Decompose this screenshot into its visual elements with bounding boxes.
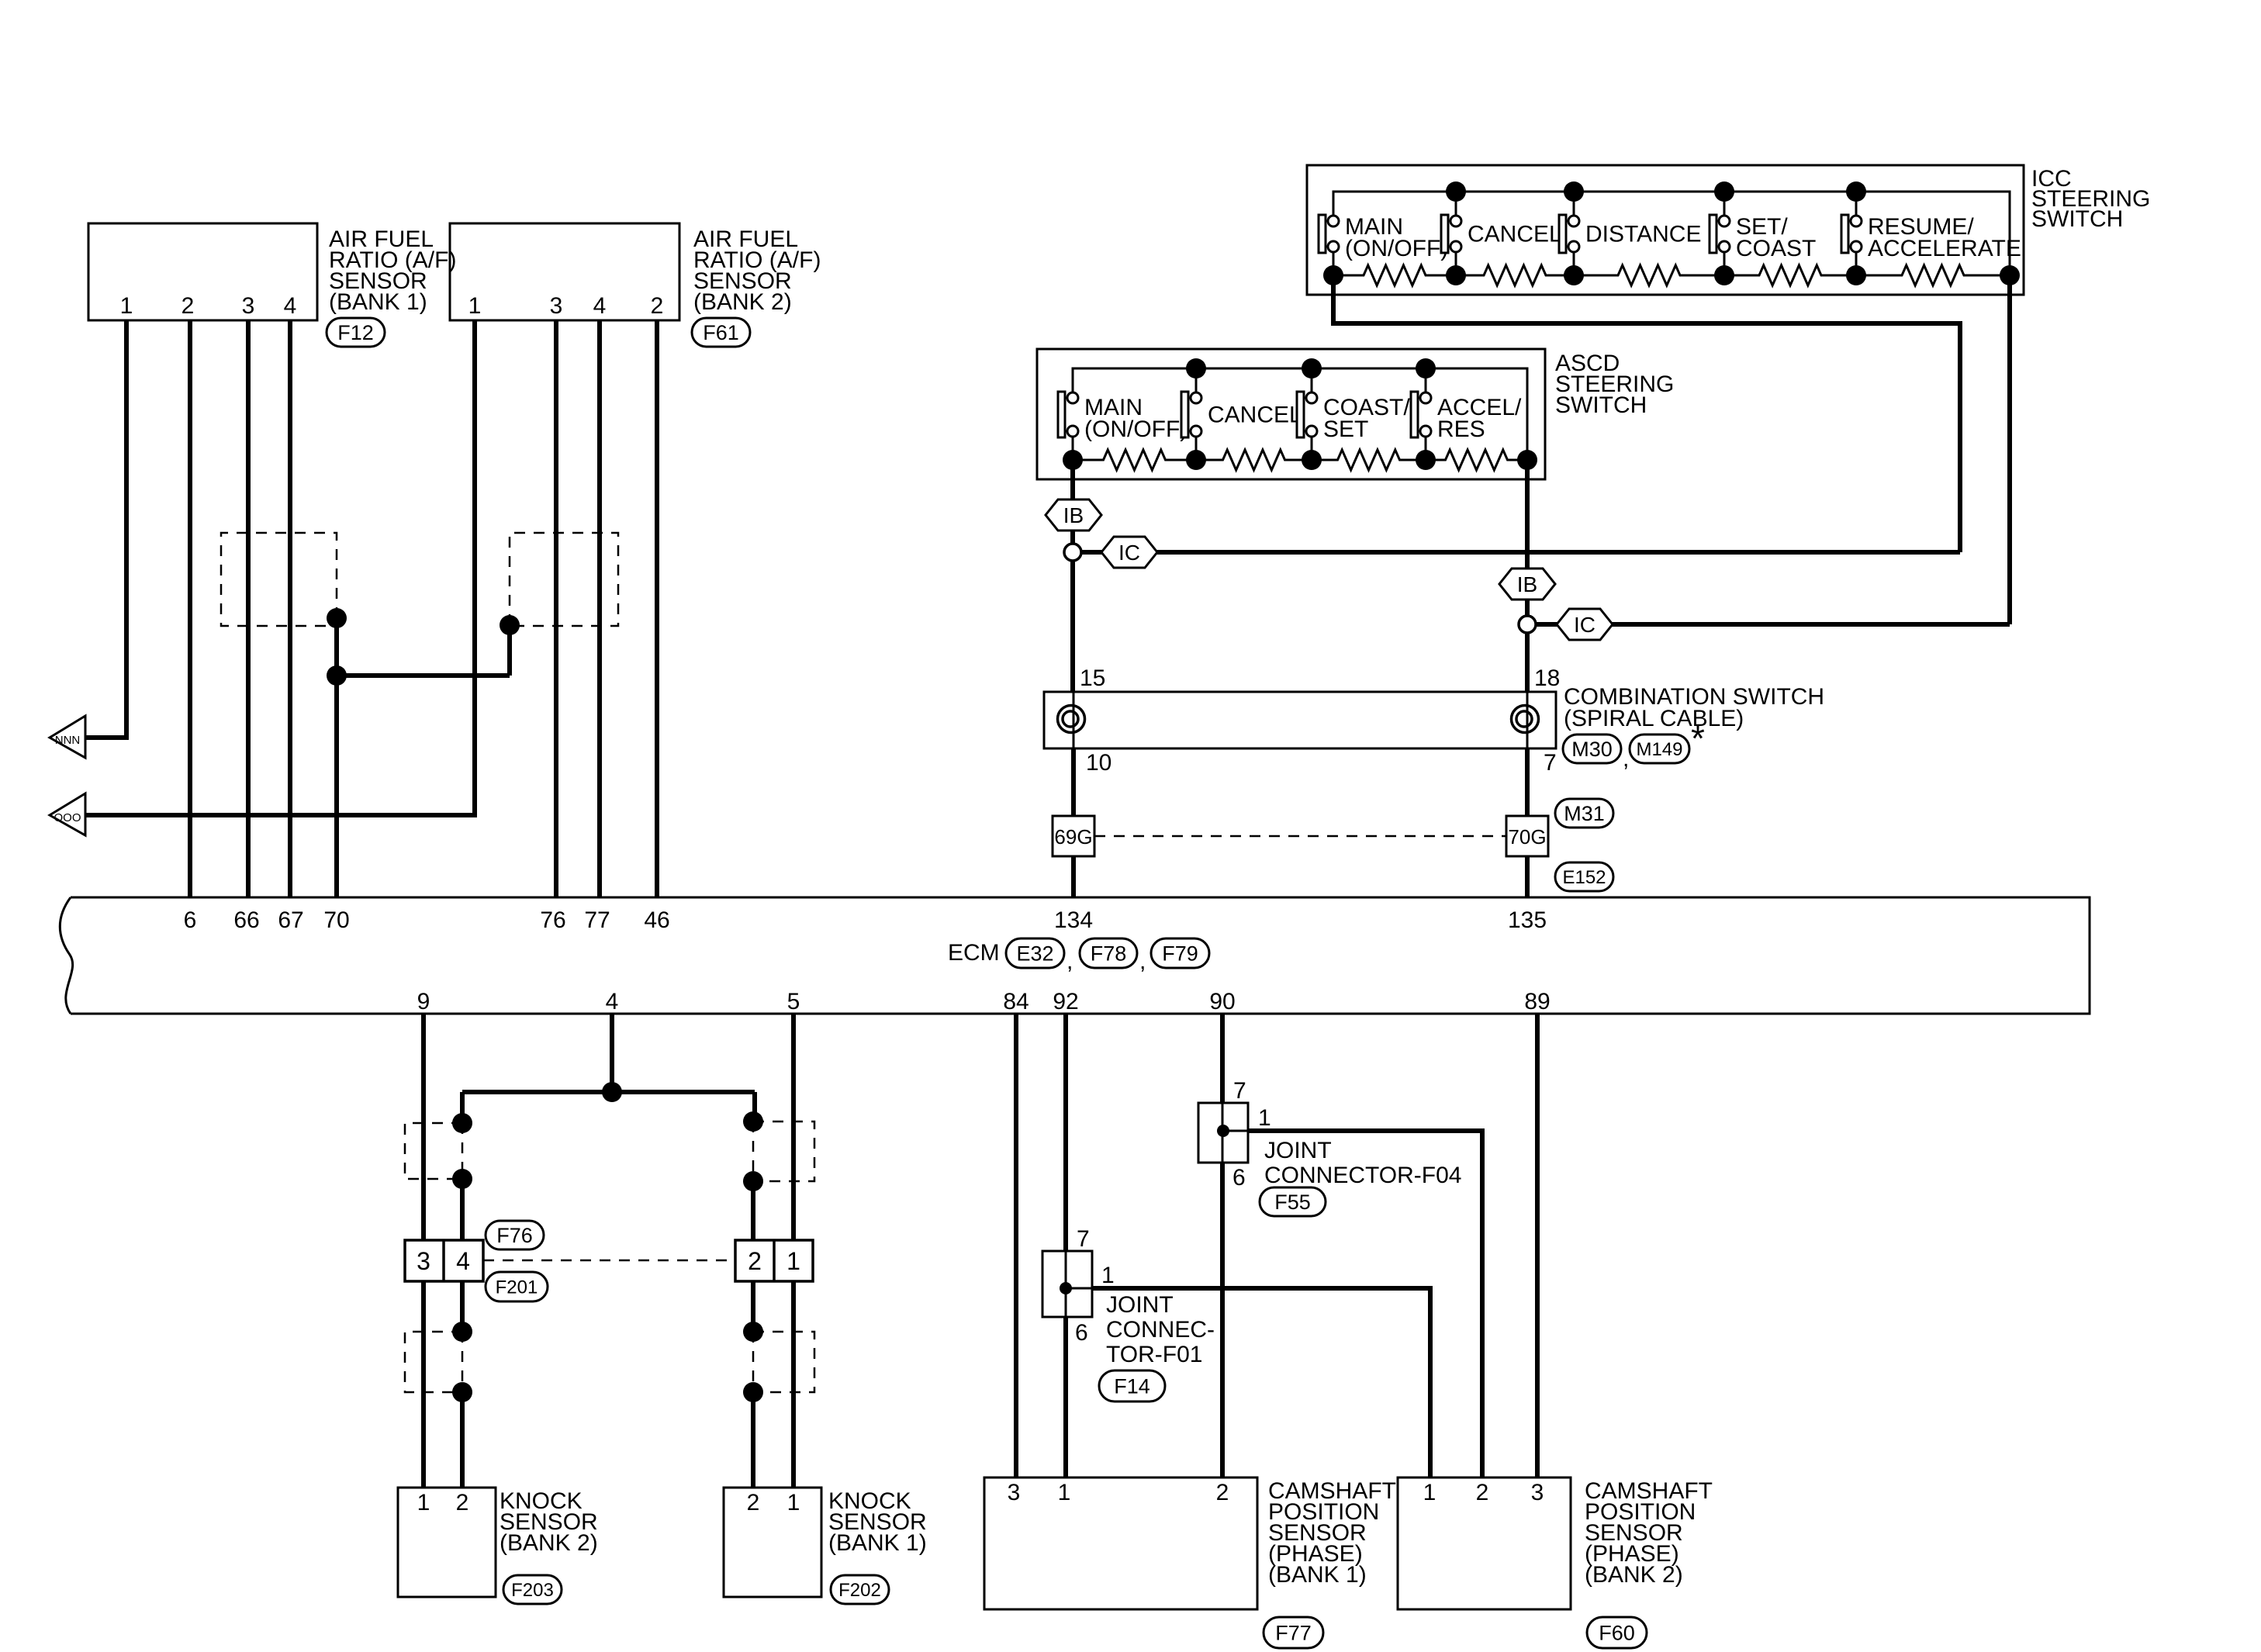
dashed link 69G-70G (1094, 835, 1506, 838)
svg-text:1: 1 (1058, 1480, 1071, 1505)
ASCD switch MAIN (ON/OFF) (1058, 368, 1188, 460)
connector F78 (1080, 938, 1137, 968)
wire through spiral cable right (1526, 692, 1529, 816)
svg-text:OOO: OOO (54, 811, 81, 824)
joint connector F04 junction (1217, 1125, 1229, 1137)
ASCD bottom bus resistors (1073, 450, 1527, 470)
svg-text:2: 2 (747, 1490, 760, 1515)
wire through spiral cable left (1073, 692, 1075, 816)
spiral symbol right (1512, 706, 1539, 733)
svg-text:F78: F78 (1091, 942, 1127, 966)
wire 69G to ECM 134 (1071, 856, 1076, 897)
svg-text:7: 7 (1077, 1226, 1090, 1252)
svg-text:E152: E152 (1562, 867, 1606, 888)
joint connector F04 box (1198, 1103, 1248, 1163)
svg-text:F12: F12 (337, 321, 374, 344)
svg-text:(SPIRAL CABLE): (SPIRAL CABLE) (1564, 706, 1744, 731)
wire ECM 5 to knock sensor bank1 pin1 (791, 1014, 796, 1488)
ASCD steering switch box (1037, 349, 1545, 479)
shield (knock bank2 upper) (405, 1123, 462, 1179)
pin 15 label (1080, 665, 1105, 691)
ICC switch SET/COAST (1710, 192, 1816, 275)
wire ASCD right to spiral cable 18 (1525, 460, 1530, 692)
ICC switch DISTANCE (1559, 192, 1701, 275)
connector cell pin labels (417, 1247, 800, 1275)
svg-text:(ON/OFF): (ON/OFF) (1084, 416, 1188, 442)
wire ECM 9 to knock sensor bank2 pin1 (421, 1014, 426, 1488)
svg-text:(BANK 2): (BANK 2) (500, 1530, 598, 1556)
ASCD top bus junctions (1186, 358, 1436, 378)
connector E32 (1006, 938, 1064, 968)
ECM bottom pin labels (417, 989, 1551, 1014)
svg-text:CONNECTOR-F04: CONNECTOR-F04 (1264, 1163, 1461, 1188)
wire F61 pin3 to ECM 76 (554, 320, 558, 897)
ASCD switch COAST/SET (1297, 368, 1410, 460)
page connector arrow OOO (50, 793, 85, 835)
shield (bank 1 sensor cable) (221, 533, 337, 626)
connector F201 (486, 1272, 548, 1301)
wire F61 pin2 to ECM 46 (655, 320, 659, 897)
svg-text:ECM: ECM (948, 940, 1000, 966)
svg-text:TOR-F01: TOR-F01 (1106, 1342, 1202, 1367)
knock connector F76/F201 left (405, 1240, 483, 1281)
svg-text:3: 3 (417, 1247, 430, 1275)
svg-text:76: 76 (540, 907, 565, 933)
svg-text:1: 1 (1258, 1105, 1271, 1131)
svg-text:70: 70 (323, 907, 349, 933)
connector F202 (831, 1575, 889, 1604)
svg-text:SWITCH: SWITCH (2031, 206, 2123, 232)
camshaft position sensor (bank 2) label (1585, 1478, 1713, 1588)
connector F77 (1264, 1617, 1323, 1648)
svg-text:M30: M30 (1571, 738, 1613, 761)
svg-text:6: 6 (1232, 1165, 1246, 1191)
svg-text:134: 134 (1054, 907, 1093, 933)
dashed link F201 (483, 1260, 735, 1262)
svg-text:F79: F79 (1162, 942, 1198, 966)
splice IB left (1046, 499, 1101, 531)
wire F01 to camshaft bank2 pin1 (1066, 1288, 1430, 1477)
connector M30 (1563, 734, 1621, 763)
wire F61 pin4 to ECM 77 (597, 320, 602, 897)
connector F76 (486, 1221, 544, 1249)
wire shield to knock bank2 pin2 (460, 1392, 465, 1488)
svg-text:6: 6 (184, 907, 197, 933)
svg-text:COAST: COAST (1736, 236, 1816, 261)
connector F14 (1099, 1370, 1165, 1401)
camshaft position sensor (bank 1) label (1268, 1478, 1396, 1588)
node circle left (1064, 544, 1081, 561)
combination switch box (1044, 692, 1556, 748)
svg-text:66: 66 (233, 907, 259, 933)
svg-text:*: * (1691, 718, 1705, 759)
ICC steering switch box (1307, 165, 2024, 295)
wire shield lower right (751, 1281, 755, 1332)
svg-text:F202: F202 (838, 1580, 881, 1601)
wire ASCD left to spiral cable 15 (1070, 460, 1075, 692)
knock sensor (bank 2) box (398, 1488, 496, 1597)
svg-text:7: 7 (1544, 750, 1557, 776)
svg-text:135: 135 (1508, 907, 1547, 933)
svg-text:NNN: NNN (55, 734, 81, 747)
svg-text:JOINT: JOINT (1106, 1292, 1174, 1318)
svg-text:67: 67 (278, 907, 303, 933)
wire ECM 84 to camshaft bank1 pin3 (1014, 1014, 1018, 1477)
ICC switch CANCEL (1441, 192, 1562, 275)
wire shield drain to ECM 70 (337, 618, 510, 897)
svg-text:(BANK 2): (BANK 2) (693, 289, 792, 315)
comma (1139, 949, 1146, 974)
knock sensor (bank 1) label (828, 1488, 927, 1556)
wire F12 pin2 to ECM 6 (188, 320, 192, 897)
camshaft position sensor (bank 2) box (1398, 1477, 1571, 1609)
ICC steering switch label (2031, 166, 2150, 232)
svg-text:10: 10 (1086, 750, 1111, 776)
svg-text:F61: F61 (703, 321, 739, 344)
shield drain junction (bank2) (500, 615, 520, 635)
splice IB right (1499, 569, 1555, 600)
combination switch label (1564, 684, 1824, 731)
joint connector F01 label (1106, 1292, 1215, 1367)
svg-text:46: 46 (644, 907, 669, 933)
shield (bank 2 sensor cable) (510, 533, 618, 626)
svg-text:9: 9 (417, 989, 430, 1014)
svg-text:69G: 69G (1054, 825, 1092, 848)
svg-text:2: 2 (1216, 1480, 1229, 1505)
wire shield lower left (460, 1281, 465, 1332)
svg-text:RES: RES (1437, 416, 1485, 442)
wire shield to knock bank1 pin2 (751, 1392, 755, 1488)
splice IC right (1557, 609, 1613, 640)
ground link 69G box (1053, 816, 1094, 856)
svg-text:1: 1 (468, 293, 482, 319)
svg-text:(BANK 1): (BANK 1) (329, 289, 427, 315)
connector M149 (1630, 734, 1689, 763)
connector F203 (503, 1575, 562, 1604)
svg-text:M149: M149 (1636, 739, 1682, 760)
ICC bottom bus resistors (1333, 265, 2010, 285)
shield drain junction (bank1) (327, 608, 347, 628)
wire ECM 90 to camshaft bank1 pin2 (1220, 1014, 1225, 1477)
svg-text:4: 4 (456, 1247, 470, 1275)
connector E152 (1555, 862, 1613, 891)
svg-text:1: 1 (787, 1247, 800, 1275)
air fuel ratio sensor (bank 1) box F12 (88, 223, 317, 320)
ground link 70G box (1506, 816, 1548, 856)
svg-text:89: 89 (1524, 989, 1550, 1014)
svg-text:2: 2 (456, 1490, 469, 1515)
ICC inner bus (1333, 192, 2010, 275)
comma (1623, 746, 1629, 772)
page connector arrow NNN (50, 716, 85, 758)
splice IC left (1101, 537, 1157, 568)
svg-text:92: 92 (1053, 989, 1078, 1014)
svg-text:4: 4 (593, 293, 607, 319)
wire shield to joint connector right (751, 1181, 755, 1240)
knock sensor (bank 1) box (724, 1488, 821, 1597)
ASCD inner bus (1073, 368, 1527, 460)
air fuel ratio sensor (bank 2) label (693, 226, 821, 315)
svg-text:7: 7 (1233, 1078, 1246, 1104)
joint connector F01 box (1042, 1251, 1092, 1317)
svg-text:(BANK 1): (BANK 1) (828, 1530, 927, 1556)
svg-text:18: 18 (1534, 665, 1560, 691)
svg-text:,: , (1623, 746, 1629, 772)
wire IC right branch (1536, 622, 2010, 627)
svg-text:CANCEL: CANCEL (1208, 403, 1302, 428)
svg-text:1: 1 (120, 293, 133, 319)
ICC switch MAIN (ON/OFF) (1319, 192, 1448, 275)
svg-text:F55: F55 (1274, 1191, 1311, 1214)
svg-text:IB: IB (1063, 503, 1084, 527)
svg-text:IC: IC (1574, 613, 1595, 637)
svg-text:F201: F201 (496, 1277, 538, 1298)
wire 70G to ECM 135 (1525, 856, 1530, 897)
ICC switch RESUME/ACCELERATE (1841, 192, 2021, 275)
svg-text:2: 2 (651, 293, 664, 319)
shield (knock bank2 lower) (405, 1332, 462, 1392)
svg-text:15: 15 (1080, 665, 1105, 691)
connector F55 (1260, 1187, 1326, 1216)
svg-text:DISTANCE: DISTANCE (1585, 222, 1701, 247)
svg-text:2: 2 (182, 293, 195, 319)
junction (327, 665, 347, 686)
asterisk (1691, 718, 1705, 759)
wire ECM 4 shield feed (462, 1014, 755, 1123)
svg-text:6: 6 (1075, 1320, 1088, 1346)
connector M31 (1555, 799, 1613, 828)
wire ICC right down (2007, 275, 2012, 624)
svg-text:SET: SET (1323, 416, 1368, 442)
F01 pin labels (1075, 1226, 1115, 1346)
svg-text:CONNEC-: CONNEC- (1106, 1317, 1215, 1343)
ASCD steering switch label (1555, 351, 1674, 418)
svg-text:3: 3 (242, 293, 255, 319)
svg-text:F14: F14 (1114, 1375, 1150, 1398)
svg-text:IB: IB (1517, 572, 1537, 596)
shield (knock bank1 lower) (753, 1332, 814, 1392)
svg-text:3: 3 (1008, 1480, 1021, 1505)
air fuel ratio sensor (bank 1) label (329, 226, 456, 315)
ASCD bottom bus junctions (1063, 450, 1537, 470)
wire F12 pin1 to page connector (85, 320, 126, 738)
svg-text:F76: F76 (496, 1224, 533, 1247)
svg-text:3: 3 (550, 293, 563, 319)
svg-text:90: 90 (1209, 989, 1235, 1014)
svg-text:JOINT: JOINT (1264, 1138, 1332, 1163)
node circle right (1519, 616, 1536, 633)
svg-text:1: 1 (1101, 1263, 1115, 1288)
svg-text:77: 77 (584, 907, 610, 933)
svg-text:1: 1 (417, 1490, 430, 1515)
pin 10 label (1086, 750, 1111, 776)
wire IC left branch (1081, 550, 1960, 555)
shield drain junctions left upper (452, 1113, 472, 1189)
svg-text:CANCEL: CANCEL (1468, 222, 1562, 247)
svg-text:1: 1 (1423, 1480, 1436, 1505)
svg-text:M31: M31 (1564, 802, 1605, 825)
F04 pin labels (1232, 1078, 1271, 1191)
connector F12 (327, 318, 385, 347)
svg-text:,: , (1139, 949, 1146, 974)
ECM box (60, 897, 2090, 1014)
svg-text:F60: F60 (1599, 1622, 1635, 1645)
svg-text:,: , (1067, 949, 1073, 974)
joint connector F04 label (1264, 1138, 1461, 1188)
ECM top pin labels (184, 907, 1547, 933)
svg-text:4: 4 (284, 293, 297, 319)
knock connector right (735, 1240, 813, 1281)
junction on wire 4 (602, 1082, 622, 1102)
svg-text:F77: F77 (1275, 1622, 1312, 1645)
ASCD switch ACCEL/RES (1411, 368, 1522, 460)
svg-text:E32: E32 (1016, 942, 1053, 966)
pin 7 label (1544, 750, 1557, 776)
wire ECM 92 to camshaft bank1 pin1 (1063, 1014, 1068, 1477)
wire F12 pin4 to ECM 67 (288, 320, 292, 897)
wire ECM 89 to camshaft bank2 pin3 (1535, 1014, 1540, 1477)
connector F61 (692, 318, 750, 347)
knock sensor (bank 2) label (500, 1488, 598, 1556)
svg-text:4: 4 (606, 989, 619, 1014)
wire F61 pin1 to page connector (85, 320, 475, 815)
ICC top bus junctions (1446, 181, 1866, 202)
wire F12 pin3 to ECM 66 (246, 320, 251, 897)
svg-text:2: 2 (1476, 1480, 1489, 1505)
svg-text:3: 3 (1531, 1480, 1544, 1505)
svg-text:5: 5 (787, 989, 800, 1014)
ICC bottom bus junctions (1323, 265, 2020, 285)
wire F04 to camshaft bank2 pin2 (1223, 1131, 1482, 1477)
comma (1067, 949, 1073, 974)
svg-text:1: 1 (787, 1490, 800, 1515)
shield drain junctions right lower (743, 1322, 763, 1402)
svg-text:2: 2 (748, 1247, 762, 1275)
shield (knock bank1 upper) (753, 1121, 814, 1181)
ASCD switch CANCEL (1181, 368, 1302, 460)
wire shield drain (bank2) (507, 625, 512, 676)
shield drain junctions right upper (743, 1111, 763, 1191)
wire ICC left to IC joint (1333, 275, 1960, 552)
svg-text:70G: 70G (1508, 825, 1546, 848)
connector F79 (1151, 938, 1209, 968)
svg-text:(BANK 1): (BANK 1) (1268, 1562, 1367, 1588)
air fuel ratio sensor (bank 2) box F61 (450, 223, 679, 320)
connector F60 (1587, 1617, 1647, 1648)
svg-text:SWITCH: SWITCH (1555, 392, 1647, 418)
pin 18 label (1534, 665, 1560, 691)
svg-text:ACCELERATE: ACCELERATE (1868, 236, 2021, 261)
wire shield to joint connector F76 (460, 1179, 465, 1240)
svg-text:F203: F203 (511, 1580, 554, 1601)
spiral symbol left (1058, 706, 1085, 733)
camshaft position sensor (bank 1) box (984, 1477, 1257, 1609)
ECM label (948, 940, 1000, 966)
svg-text:(ON/OFF): (ON/OFF) (1345, 236, 1448, 261)
svg-text:(BANK 2): (BANK 2) (1585, 1562, 1683, 1588)
svg-text:84: 84 (1003, 989, 1029, 1014)
svg-text:IC: IC (1118, 541, 1140, 565)
joint connector F01 junction (1060, 1282, 1072, 1294)
shield drain junctions left lower (452, 1322, 472, 1402)
